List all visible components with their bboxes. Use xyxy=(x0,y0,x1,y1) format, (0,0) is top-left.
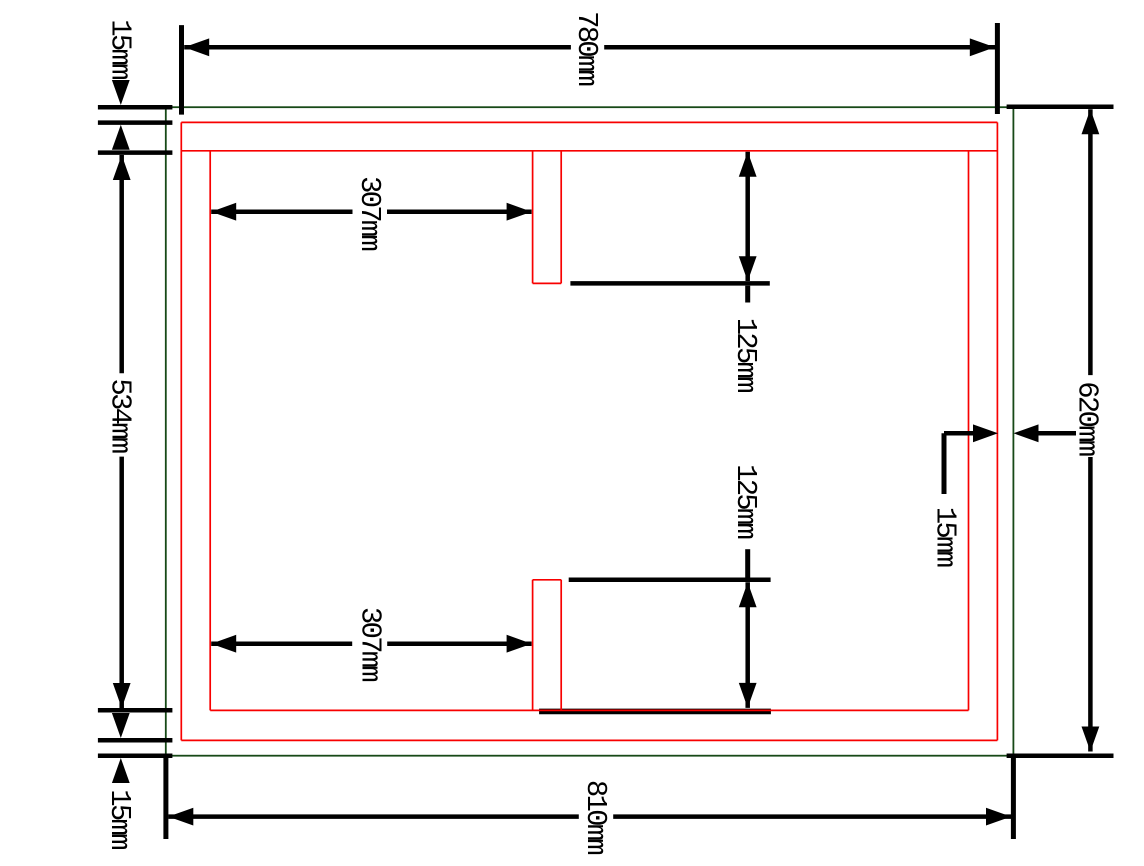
svg-text:307mm: 307mm xyxy=(353,176,386,250)
red frame outer left edge xyxy=(180,122,182,740)
780mm right extension line xyxy=(995,23,1000,114)
620mm bottom tick xyxy=(1007,753,1114,758)
534mm bottom arrowhead xyxy=(113,683,131,708)
307mm lower right arrowhead xyxy=(507,635,532,653)
15mm right leader vertical xyxy=(942,433,947,494)
307mm upper right arrowhead xyxy=(507,203,532,221)
620mm bottom arrowhead xyxy=(1082,727,1100,752)
lower 15mm up arrowhead xyxy=(112,758,130,783)
810mm dimension line left segment xyxy=(168,814,579,819)
125mm lower bottom arrowhead xyxy=(739,683,757,708)
red frame inner bottom edge xyxy=(210,709,968,711)
534mm dimension line upper segment xyxy=(119,155,124,373)
red frame inner left edge xyxy=(209,151,211,711)
svg-text:810mm: 810mm xyxy=(579,780,612,854)
upper tab left edge xyxy=(532,151,534,284)
svg-text:15mm: 15mm xyxy=(103,789,136,849)
upper 15mm down arrowhead xyxy=(112,80,130,105)
lower 15mm down arrowhead xyxy=(112,713,130,738)
15mm right leader horizontal xyxy=(944,431,975,436)
307mm lower dimension line left segment xyxy=(211,641,352,646)
tick at frame inner bottom (534mm lower ref) xyxy=(98,708,172,713)
620mm dimension line upper segment xyxy=(1088,109,1093,375)
125mm upper overshoot stem xyxy=(745,286,750,303)
tick at red frame top (15mm lower ref) xyxy=(98,120,172,125)
125mm upper dimension line xyxy=(745,152,750,281)
307mm upper left arrowhead xyxy=(211,203,236,221)
svg-text:620mm: 620mm xyxy=(1071,381,1104,455)
upper 15mm up arrowhead xyxy=(112,125,130,150)
780mm left extension line xyxy=(179,25,184,115)
outer board outline (green) 810mm x 620mm xyxy=(166,107,1014,756)
red frame outer bottom edge xyxy=(181,739,997,741)
svg-text:307mm: 307mm xyxy=(353,607,386,681)
780mm dimension line right segment xyxy=(604,45,995,50)
svg-text:125mm: 125mm xyxy=(729,464,762,538)
tick at red frame bottom (lower 15mm upper ref) xyxy=(98,738,172,743)
620mm top tick xyxy=(1007,105,1114,110)
534mm dimension line lower segment xyxy=(119,457,124,708)
125mm lower overshoot stem xyxy=(745,549,750,577)
15mm right arrowhead pointing left xyxy=(1014,424,1039,442)
125mm upper bottom arrowhead xyxy=(739,256,757,281)
307mm lower dimension line right segment xyxy=(387,641,531,646)
svg-text:15mm: 15mm xyxy=(928,507,961,567)
810mm dimension line right segment xyxy=(613,814,1011,819)
red frame inner right edge xyxy=(968,151,970,711)
810mm left arrowhead xyxy=(168,808,193,826)
620mm dimension line lower segment xyxy=(1088,457,1093,752)
extension line, lower 125mm datum at panel bottom xyxy=(539,709,771,715)
810mm right arrowhead xyxy=(986,808,1011,826)
lower tab top edge xyxy=(533,579,562,581)
125mm lower top arrowhead xyxy=(739,582,757,607)
780mm left arrowhead xyxy=(184,38,209,56)
red frame outer right edge xyxy=(996,122,998,740)
125mm upper top arrowhead xyxy=(739,152,757,177)
svg-text:125mm: 125mm xyxy=(729,318,762,392)
svg-text:15mm: 15mm xyxy=(104,19,137,79)
lower tab left edge xyxy=(532,580,534,711)
534mm top arrowhead xyxy=(113,155,131,180)
upper tab bottom edge xyxy=(533,282,562,284)
upper tab right edge xyxy=(560,151,562,284)
upper 125mm datum extension line xyxy=(570,281,769,286)
780mm right arrowhead xyxy=(970,38,995,56)
lower 125mm datum extension line xyxy=(569,578,771,583)
307mm upper dimension line left segment xyxy=(211,209,352,214)
red frame outer top edge xyxy=(181,121,997,123)
tick at board top (15mm upper ref) xyxy=(98,105,172,110)
620mm top arrowhead xyxy=(1082,109,1100,134)
tick at frame inner top (534mm upper ref) xyxy=(98,150,172,155)
tick at board bottom (lower 15mm lower ref) xyxy=(98,753,172,758)
307mm lower left arrowhead xyxy=(211,635,236,653)
810mm left extension line xyxy=(163,754,168,840)
red frame inner top edge xyxy=(181,150,997,152)
15mm right arrowhead pointing right xyxy=(973,424,998,442)
svg-text:780mm: 780mm xyxy=(570,11,603,85)
svg-text:534mm: 534mm xyxy=(103,378,136,452)
810mm right extension line xyxy=(1011,754,1016,840)
125mm lower dimension line xyxy=(745,582,750,708)
780mm dimension line left segment xyxy=(184,45,571,50)
15mm right arrow tail stem xyxy=(1037,431,1076,436)
lower tab right edge xyxy=(560,580,562,711)
307mm upper dimension line right segment xyxy=(387,209,532,214)
